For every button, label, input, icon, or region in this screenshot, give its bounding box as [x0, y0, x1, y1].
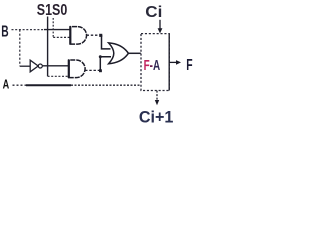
svg-text:Ci+1: Ci+1 [139, 109, 174, 127]
svg-text:A: A [3, 78, 10, 92]
svg-text:Ci: Ci [145, 4, 162, 21]
svg-text:F: F [186, 56, 192, 74]
svg-text:B: B [1, 22, 9, 40]
svg-text:S1S0: S1S0 [37, 2, 68, 19]
svg-text:F-A: F-A [144, 57, 160, 74]
